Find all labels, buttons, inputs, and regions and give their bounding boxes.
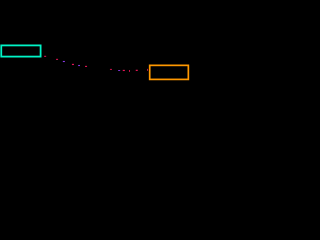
wire dash 5 (purple) <box>78 65 80 66</box>
wire dash 3 (purple) <box>63 61 65 62</box>
wire dash 11 (crimson) <box>136 70 138 71</box>
wire dash 12 (crimson, vertical) <box>146 69 149 71</box>
wire dash 9 (crimson) <box>123 70 125 71</box>
node box B (orange outline, right) <box>150 65 189 79</box>
node box A (teal outline, top-left) <box>1 45 40 56</box>
wire dash 2 (crimson) <box>56 59 58 60</box>
wire dash 1 (crimson) <box>44 56 46 57</box>
wire dash 6 (crimson) <box>85 66 87 67</box>
wire dash 7 (crimson) <box>110 68 112 71</box>
wire dash 4 (crimson) <box>72 64 74 65</box>
wire dash 8 (purple) <box>118 69 120 72</box>
wire dash 10 (crimson, vertical) <box>128 70 131 72</box>
